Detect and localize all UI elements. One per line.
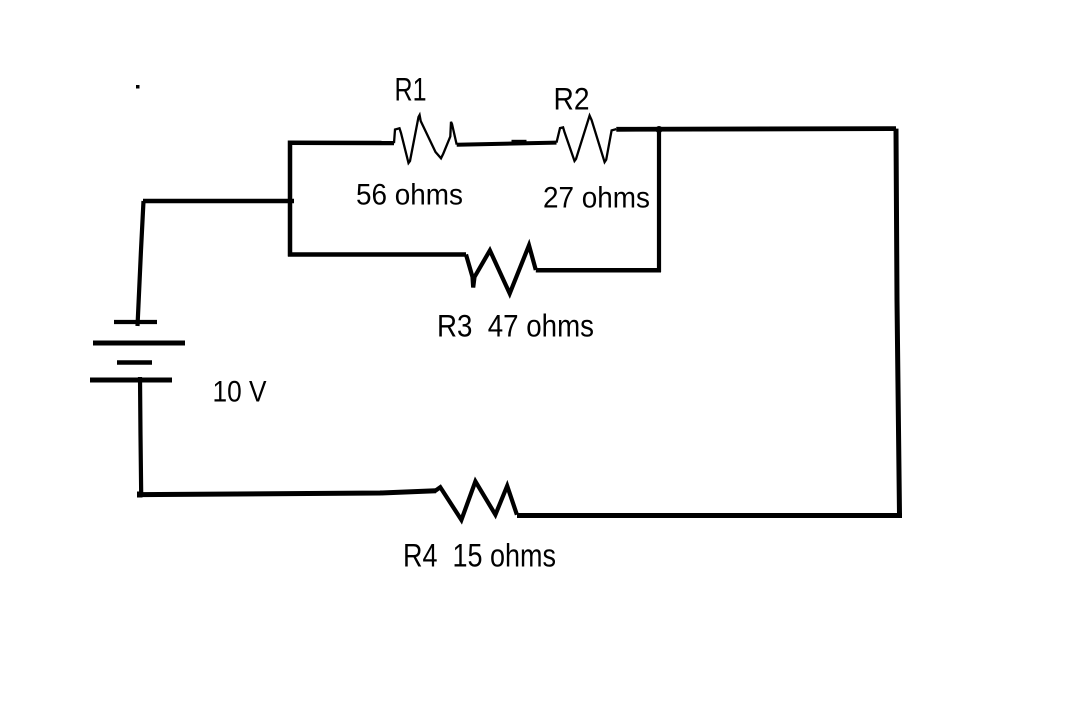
svg-text:R4 15 ohms: R4 15 ohms	[403, 538, 556, 574]
wire R3 branch left	[288, 252, 466, 257]
svg-text:10 V: 10 V	[213, 376, 267, 409]
svg-text:R1: R1	[395, 72, 427, 108]
wire top-left horizontal	[288, 141, 394, 146]
corner blob	[137, 492, 143, 498]
wire bottom right	[517, 513, 902, 518]
stray dot	[136, 85, 140, 89]
wire right vertical	[896, 129, 900, 516]
svg-text:R3 47 ohms: R3 47 ohms	[437, 308, 594, 344]
wire left vertical node	[288, 141, 293, 257]
battery top lead	[138, 201, 144, 326]
battery V1 plate 2 long	[93, 341, 185, 346]
battery V1 plate 3 short	[117, 360, 152, 365]
svg-text:56 ohms: 56 ohms	[356, 179, 463, 212]
wire battery top horizontal	[143, 199, 294, 204]
wire R2 to top-right corner	[616, 126, 896, 131]
battery bottom lead	[140, 377, 141, 495]
wire between R1 and R2	[457, 143, 557, 145]
resistor R1	[394, 115, 457, 163]
wire junction vertical	[657, 128, 661, 272]
wire bottom left	[141, 491, 437, 495]
battery V1 plate 1 short	[114, 320, 157, 324]
svg-text:R2: R2	[554, 81, 590, 117]
bump on wire	[512, 140, 527, 144]
battery V1 plate 4 long	[90, 378, 172, 383]
wire R3 branch right	[536, 268, 661, 273]
resistor R4	[435, 481, 517, 520]
svg-text:27 ohms: 27 ohms	[543, 182, 650, 215]
junction node blob	[656, 126, 663, 133]
resistor R3	[466, 245, 536, 293]
resistor R2	[557, 116, 617, 163]
